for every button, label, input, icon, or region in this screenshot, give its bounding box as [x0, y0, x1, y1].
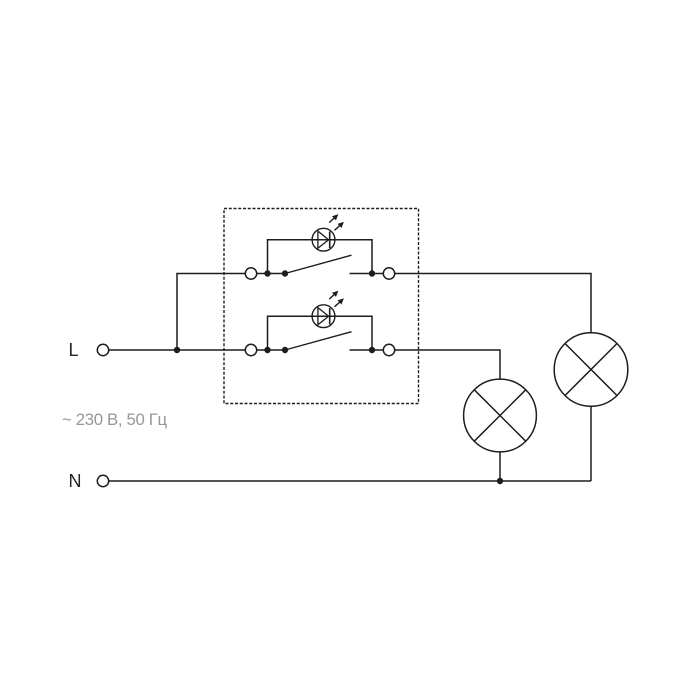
- LED light arrows row 1: [329, 215, 343, 230]
- lamp E1: [464, 379, 537, 452]
- terminal row2 left: [245, 344, 256, 355]
- terminal row1 right: [383, 268, 394, 279]
- junction row2 b (movable contact pivot): [282, 347, 288, 353]
- wire row2 left terminal to contacts: [257, 349, 288, 351]
- wire row1 output to lamp E2: [395, 274, 591, 333]
- junction row2 c: [369, 347, 375, 353]
- LED indicator row 2: [312, 305, 335, 328]
- switch enclosure (dashed box): [224, 209, 419, 404]
- LED loop wire row 1: [268, 240, 373, 274]
- svg-text:L: L: [69, 340, 79, 360]
- wire lamp E2 to N: [590, 406, 592, 481]
- wire L feed (L terminal to switch unit row 2): [109, 349, 246, 351]
- junction N / lamp E1: [497, 478, 503, 484]
- junction row1 c: [369, 270, 375, 276]
- svg-text:N: N: [69, 471, 82, 491]
- switch blade row 1: [285, 255, 352, 273]
- wire lamp E1 to N: [499, 452, 501, 481]
- wire riser from L junction to row 1: [177, 274, 245, 351]
- wire row2 output to lamp E1: [395, 350, 500, 379]
- terminal row1 left: [245, 268, 256, 279]
- fixed contact row 2: [350, 349, 384, 351]
- LED loop wire row 2: [268, 316, 373, 350]
- terminal N: [97, 475, 108, 486]
- terminal L: [97, 344, 108, 355]
- junction row2 a: [264, 347, 270, 353]
- wire row1 left terminal to contacts: [257, 273, 288, 275]
- switch blade row 2: [285, 332, 352, 350]
- lamp E2: [554, 333, 628, 407]
- LED light arrows row 2: [329, 291, 343, 306]
- junction row1 a: [264, 270, 270, 276]
- terminal row2 right: [383, 344, 394, 355]
- wire N bus: [109, 480, 591, 482]
- LED indicator row 1: [312, 228, 335, 251]
- junction on L feed: [174, 347, 180, 353]
- svg-text:~ 230 В, 50 Гц: ~ 230 В, 50 Гц: [62, 410, 168, 429]
- fixed contact row 1: [350, 273, 384, 275]
- junction row1 b (movable contact pivot): [282, 270, 288, 276]
